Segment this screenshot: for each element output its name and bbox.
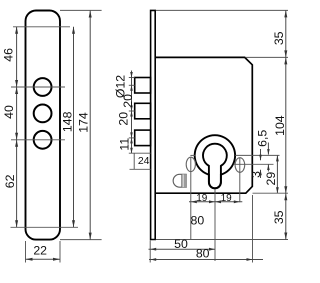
upper reference line across plate xyxy=(13,26,70,28)
extension line top right xyxy=(156,9,288,11)
svg-text:80: 80 xyxy=(196,247,210,261)
extension line 22 right xyxy=(59,241,61,263)
dimension line 50 xyxy=(149,248,216,250)
lock case body outline xyxy=(155,57,252,193)
cylinder center horizontal stub left xyxy=(190,154,195,156)
extension line body bottom right xyxy=(253,192,289,194)
extension line plate top right xyxy=(60,9,102,11)
svg-text:20: 20 xyxy=(117,112,131,126)
centerline through top circle xyxy=(11,86,65,88)
bolt hole circle middle xyxy=(34,105,52,123)
dimension line 22 xyxy=(26,258,61,260)
svg-text:80: 80 xyxy=(191,214,205,228)
svg-text:3: 3 xyxy=(249,171,263,178)
dimension line 29 xyxy=(276,155,278,193)
cylinder center horizontal stub right xyxy=(235,154,279,156)
svg-text:19: 19 xyxy=(196,193,208,204)
thin line 24 box left xyxy=(133,153,135,169)
bolt 1 side rectangle xyxy=(135,78,151,94)
bolt hole circle bottom xyxy=(34,131,52,149)
extension line 22 left xyxy=(25,241,27,263)
dimension line 46-40-62 vertical xyxy=(16,27,18,228)
bolt 2 side rectangle xyxy=(135,103,151,119)
svg-text:6,5: 6,5 xyxy=(256,130,270,147)
thin line 24 box bottom xyxy=(130,168,151,170)
svg-text:50: 50 xyxy=(174,237,188,251)
extension line body top right xyxy=(246,56,289,58)
euro cylinder inner profile xyxy=(203,144,227,189)
faceplate edge strip xyxy=(151,10,156,239)
svg-text:35: 35 xyxy=(272,210,286,224)
bolt hole circle top xyxy=(34,78,52,96)
lower reference line across plate xyxy=(11,226,79,228)
dimension line 174 xyxy=(89,11,91,240)
thin line under bolt3 xyxy=(129,152,151,154)
bolt 3 side rectangle xyxy=(135,130,151,146)
svg-text:148: 148 xyxy=(60,111,74,132)
dimension line 35-104-35 xyxy=(285,10,287,239)
svg-text:46: 46 xyxy=(2,48,16,62)
svg-text:20: 20 xyxy=(121,94,135,108)
dimension arrows 3 xyxy=(260,149,262,160)
svg-text:40: 40 xyxy=(2,105,16,119)
dimension line bolts vertical xyxy=(131,71,133,154)
extension vertical faceplate bottom xyxy=(149,241,151,263)
tick bolt1 top xyxy=(129,77,135,79)
screw hole oval right xyxy=(235,158,245,173)
svg-text:22: 22 xyxy=(33,244,47,258)
svg-text:19: 19 xyxy=(221,193,233,204)
svg-text:104: 104 xyxy=(273,115,287,136)
extension vertical body right bottom xyxy=(252,195,254,263)
dimension line 19-19 xyxy=(189,201,242,203)
extension line strip bottom right xyxy=(156,239,288,241)
dimension line 80 bottom xyxy=(149,259,263,261)
extension vertical right oval xyxy=(239,158,241,202)
tick bolt1 center xyxy=(129,84,135,86)
svg-text:11: 11 xyxy=(118,138,132,151)
screw hole oval left xyxy=(186,157,195,171)
svg-text:174: 174 xyxy=(77,112,91,133)
auxiliary pin pill shape xyxy=(173,174,186,187)
faceplate front view (stadium outline) xyxy=(26,11,61,240)
cylinder centerline vertical xyxy=(214,189,216,261)
dimension line 148 xyxy=(73,27,75,228)
tick bolt3 center xyxy=(129,137,135,139)
svg-text:24: 24 xyxy=(138,155,150,167)
extension line plate bottom right xyxy=(60,239,102,241)
svg-text:35: 35 xyxy=(272,31,286,45)
dimension arrows 6.5 xyxy=(267,143,269,155)
extension vertical left oval xyxy=(190,158,192,240)
euro cylinder hole outer profile xyxy=(195,135,235,188)
svg-text:29: 29 xyxy=(264,172,278,186)
svg-text:62: 62 xyxy=(3,174,17,188)
tick bolt2 center xyxy=(129,110,135,112)
centerline through bottom circle xyxy=(11,139,65,141)
oval axis line right xyxy=(234,163,274,165)
